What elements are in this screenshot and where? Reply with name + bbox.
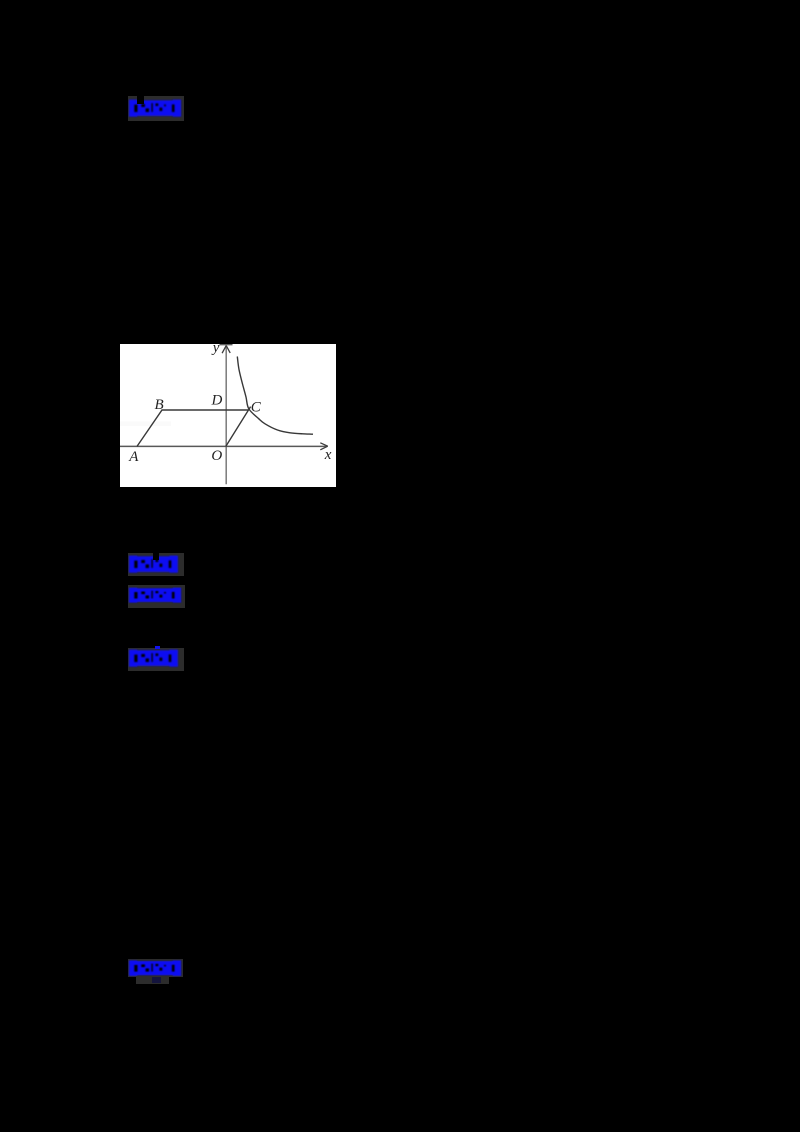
svg-text:O: O xyxy=(211,448,222,464)
svg-text:y: y xyxy=(210,344,219,356)
svg-text:x: x xyxy=(323,447,331,463)
svg-text:A: A xyxy=(128,449,139,465)
svg-text:D: D xyxy=(210,392,222,408)
svg-text:B: B xyxy=(154,397,163,413)
svg-text:C: C xyxy=(250,399,261,415)
